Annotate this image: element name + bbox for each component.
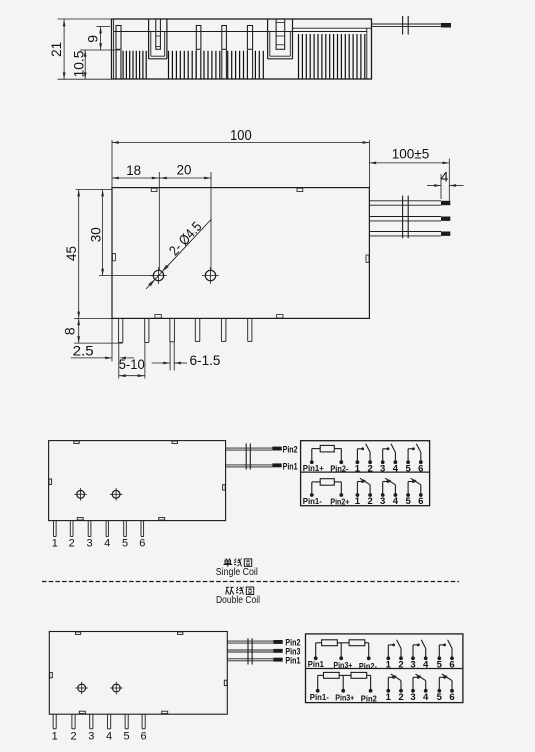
unit pin 4 bbox=[107, 714, 109, 729]
svg-text:Pin2-: Pin2- bbox=[359, 661, 377, 671]
svg-text:Pin1: Pin1 bbox=[308, 659, 324, 669]
svg-text:4: 4 bbox=[104, 538, 110, 550]
svg-text:6: 6 bbox=[139, 538, 145, 550]
double coil schematic box bbox=[306, 634, 463, 703]
unit mounting hole 1 bbox=[77, 490, 85, 498]
front view right edge notch bbox=[366, 255, 369, 262]
dimension 20 bbox=[159, 177, 211, 179]
svg-text:6: 6 bbox=[141, 731, 147, 743]
top view: relay body outline bbox=[112, 19, 372, 79]
dashed separator line bbox=[42, 581, 459, 583]
svg-text:5: 5 bbox=[124, 731, 130, 743]
unit bottom edge notch 1 bbox=[79, 711, 85, 713]
coil unit body outline bbox=[49, 632, 227, 715]
dimension 4 extension line bbox=[440, 174, 442, 199]
unit pin 1 bbox=[52, 714, 54, 729]
unit pin 4 bbox=[105, 521, 107, 537]
single coil wire tips bbox=[272, 447, 281, 451]
unit left edge notch bbox=[50, 672, 53, 677]
front view wire stripped tips bbox=[441, 201, 450, 205]
svg-text:5: 5 bbox=[122, 538, 128, 550]
double coil (reset) Pin1- / Pin3+ / Pin2 bbox=[316, 689, 320, 693]
closed contact pair 5-6 bbox=[406, 493, 410, 497]
svg-text:5: 5 bbox=[405, 463, 411, 474]
svg-text:4: 4 bbox=[393, 463, 399, 474]
chinese label dan-xian-quan (single coil) bbox=[225, 558, 228, 559]
svg-text:45: 45 bbox=[63, 246, 79, 261]
dimension 8 bbox=[78, 318, 80, 343]
unit pin 6 bbox=[140, 521, 142, 537]
front view pin 3 bbox=[169, 318, 171, 341]
unit right edge notch bbox=[223, 485, 226, 490]
front view mounting hole 1 bbox=[153, 270, 163, 280]
double closed contact pair 3-4 bbox=[411, 689, 415, 693]
svg-text:1: 1 bbox=[52, 538, 58, 550]
coil unit body outline bbox=[49, 441, 226, 521]
double coil (set) Pin1 / Pin3+ / Pin2- bbox=[314, 656, 318, 660]
svg-text:20: 20 bbox=[177, 162, 192, 178]
dimension 45 extension line bbox=[76, 189, 113, 191]
top view pin tab 6 bbox=[276, 19, 285, 49]
dimension 9 bbox=[100, 27, 102, 50]
unit pin 1 bbox=[53, 521, 55, 537]
unit bottom edge notch 2 bbox=[162, 711, 168, 713]
dimension 100 bbox=[112, 142, 369, 144]
svg-text:8: 8 bbox=[62, 327, 78, 335]
top view wire break marks bbox=[402, 16, 404, 35]
open contact pair 1-2 bbox=[356, 460, 360, 464]
front view: relay body outline bbox=[112, 188, 369, 319]
svg-text:Pin1-: Pin1- bbox=[303, 496, 322, 506]
dimension 4 bbox=[427, 185, 441, 187]
single coil unit wires bbox=[226, 447, 273, 449]
unit pin 5 bbox=[124, 714, 126, 729]
svg-text:6: 6 bbox=[418, 496, 423, 507]
top view pin tab 4 bbox=[222, 26, 227, 50]
unit bottom edge notch 2 bbox=[159, 518, 165, 520]
dimension 100 extension lines bbox=[111, 140, 113, 188]
dimension 45 bbox=[78, 190, 80, 319]
single coil wire break marks bbox=[245, 443, 247, 469]
top view U-slot 1 bbox=[148, 19, 150, 59]
top view pin tab 2 bbox=[156, 19, 161, 49]
open contact pair 5-6 bbox=[406, 460, 410, 464]
closed contact pair 1-2 bbox=[356, 493, 360, 497]
coil (energized +) between Pin1+ and Pin2- bbox=[310, 460, 314, 464]
svg-text:4: 4 bbox=[393, 496, 399, 507]
double open contact pair 5-6 bbox=[437, 656, 441, 660]
svg-text:6: 6 bbox=[418, 463, 423, 474]
dimension 30 bbox=[102, 190, 104, 276]
svg-text:3: 3 bbox=[87, 538, 93, 550]
double coil wire break marks bbox=[247, 638, 249, 664]
unit pin 5 bbox=[123, 521, 125, 537]
svg-text:Pin1+: Pin1+ bbox=[303, 463, 324, 473]
front view top edge notch 1 bbox=[151, 188, 157, 191]
svg-text:9: 9 bbox=[84, 35, 100, 43]
svg-text:Double Coil: Double Coil bbox=[216, 594, 260, 606]
svg-text:1: 1 bbox=[386, 692, 392, 703]
double coil unit wires bbox=[227, 640, 273, 642]
svg-text:2- Ø4.5: 2- Ø4.5 bbox=[166, 218, 205, 258]
open contact pair 3-4 bbox=[381, 460, 385, 464]
front view lead wires bbox=[369, 200, 441, 202]
double coil wire tips bbox=[273, 640, 282, 644]
svg-text:5: 5 bbox=[405, 496, 411, 507]
unit pin 2 bbox=[69, 521, 71, 537]
dimension 9 extension line bbox=[97, 26, 111, 28]
svg-text:2: 2 bbox=[367, 496, 372, 507]
extension lines below pins bbox=[111, 318, 113, 361]
front view wire break marks bbox=[402, 196, 404, 239]
dimension 30 extension line bbox=[99, 275, 153, 277]
svg-text:4: 4 bbox=[423, 659, 429, 670]
svg-text:4: 4 bbox=[423, 692, 429, 703]
front view pin 1 bbox=[118, 318, 120, 342]
dimension 18-20 extension lines bbox=[158, 172, 160, 270]
svg-text:Pin3+: Pin3+ bbox=[333, 660, 352, 670]
svg-text:4: 4 bbox=[441, 168, 449, 184]
unit right edge notch bbox=[224, 680, 227, 685]
unit pin 3 bbox=[87, 521, 89, 537]
top view comb teeth group B bbox=[168, 51, 170, 79]
dimension 18 bbox=[112, 177, 159, 179]
unit top edge notch 1 bbox=[75, 632, 80, 634]
svg-text:Pin2+: Pin2+ bbox=[330, 496, 349, 506]
dimension 100 plus-minus 5 extension line bbox=[448, 159, 450, 201]
front view mounting hole 2 bbox=[205, 270, 215, 280]
unit top edge notch 2 bbox=[172, 441, 177, 443]
front view pin 6 bbox=[247, 318, 249, 341]
svg-text:30: 30 bbox=[87, 227, 103, 242]
svg-text:3: 3 bbox=[88, 731, 94, 743]
dimension 2.5 leader bbox=[71, 357, 112, 359]
unit top edge notch 1 bbox=[74, 441, 79, 443]
svg-text:Pin2: Pin2 bbox=[283, 445, 298, 456]
dimension 8 extension lines bbox=[74, 317, 112, 319]
top view pin tab 1 bbox=[116, 26, 121, 50]
dimension 100 plus-minus 5 bbox=[369, 162, 449, 164]
svg-text:2: 2 bbox=[367, 463, 372, 474]
closed contact pair 3-4 bbox=[381, 493, 385, 497]
schematic divider line bbox=[301, 471, 430, 473]
top view right cap line bbox=[293, 27, 372, 29]
unit pin 2 bbox=[71, 714, 73, 729]
double schematic divider line bbox=[306, 668, 463, 670]
svg-text:6-1.5: 6-1.5 bbox=[190, 353, 221, 368]
svg-text:1: 1 bbox=[355, 496, 361, 507]
svg-text:4: 4 bbox=[106, 731, 112, 743]
top view pin tab 2 inner marks bbox=[156, 35, 161, 37]
svg-text:2.5: 2.5 bbox=[73, 343, 94, 358]
unit top edge notch 2 bbox=[178, 632, 183, 634]
unit mounting hole 2 bbox=[112, 684, 120, 692]
front view left edge notch bbox=[112, 253, 115, 260]
svg-text:Pin1: Pin1 bbox=[283, 462, 299, 473]
double open contact pair 1-2 bbox=[386, 656, 390, 660]
double closed contact pair 1-2 bbox=[386, 689, 390, 693]
svg-text:6: 6 bbox=[449, 659, 454, 670]
svg-text:21: 21 bbox=[48, 42, 64, 57]
unit mounting hole 2 bbox=[112, 490, 120, 498]
top view shoulder line bbox=[114, 31, 367, 33]
top view pin tab 3 bbox=[196, 26, 201, 50]
front view pin 5 bbox=[220, 318, 222, 341]
front view top edge notch 2 bbox=[297, 188, 303, 191]
coil (reset -) between Pin1- and Pin2+ bbox=[310, 493, 314, 497]
unit left edge notch bbox=[49, 479, 52, 484]
dimension 21 bbox=[63, 20, 65, 80]
top view inner right wall bbox=[366, 28, 368, 79]
svg-text:Pin1: Pin1 bbox=[285, 656, 301, 667]
svg-text:100: 100 bbox=[230, 128, 252, 144]
dimension 21 extension lines bbox=[58, 18, 112, 20]
svg-text:Single Coil: Single Coil bbox=[216, 566, 258, 578]
svg-text:2: 2 bbox=[69, 538, 75, 550]
front view pin 2 bbox=[144, 318, 146, 342]
svg-text:3: 3 bbox=[380, 463, 385, 474]
svg-text:Pin1-: Pin1- bbox=[310, 692, 329, 702]
top view white slots below pin tabs bbox=[117, 50, 121, 78]
svg-text:5-10: 5-10 bbox=[119, 357, 145, 372]
svg-text:3: 3 bbox=[410, 692, 415, 703]
svg-text:2: 2 bbox=[398, 692, 403, 703]
front view pin 4 bbox=[194, 318, 196, 341]
svg-text:5: 5 bbox=[437, 659, 443, 670]
dimension 10.5 bbox=[84, 50, 86, 79]
svg-text:Pin3+: Pin3+ bbox=[335, 693, 354, 703]
top view comb teeth group C bbox=[298, 34, 300, 79]
unit bottom edge notch 1 bbox=[77, 518, 83, 520]
svg-text:100±5: 100±5 bbox=[392, 146, 430, 162]
svg-text:1: 1 bbox=[386, 659, 392, 670]
dimension 5-10 bbox=[119, 375, 145, 377]
top view lead wire bbox=[372, 23, 442, 25]
svg-text:6: 6 bbox=[449, 692, 454, 703]
unit pin 3 bbox=[89, 714, 91, 729]
svg-text:Pin2-: Pin2- bbox=[330, 464, 348, 474]
svg-text:1: 1 bbox=[355, 463, 361, 474]
unit pin 6 bbox=[141, 714, 143, 729]
dimension 10.5 extension line bbox=[80, 49, 120, 51]
front view bottom edge notch 2 bbox=[277, 315, 283, 318]
hole leader line 2- dia 4.5 bbox=[146, 219, 212, 289]
front view bottom edge notch 1 bbox=[155, 315, 161, 318]
svg-text:Pin2: Pin2 bbox=[361, 694, 377, 704]
top view comb teeth group A bbox=[116, 51, 118, 79]
svg-text:2: 2 bbox=[398, 659, 403, 670]
top view wire stripped tip bbox=[441, 23, 451, 28]
svg-text:10.5: 10.5 bbox=[70, 50, 86, 77]
svg-text:5: 5 bbox=[437, 692, 443, 703]
dimension 6-1.5 bbox=[152, 362, 171, 364]
chinese label shuang-xian-quan (double coil) bbox=[226, 586, 229, 588]
svg-text:2: 2 bbox=[70, 731, 76, 743]
top view U-slot 2 bbox=[267, 19, 269, 59]
double open contact pair 3-4 bbox=[411, 656, 415, 660]
svg-text:3: 3 bbox=[380, 496, 385, 507]
double closed contact pair 5-6 bbox=[437, 689, 441, 693]
top view pin tab 5 bbox=[247, 26, 252, 50]
top view inner left wall bbox=[113, 19, 115, 79]
top view pin tab 6 inner marks bbox=[276, 22, 285, 24]
unit mounting hole 1 bbox=[78, 684, 86, 692]
svg-text:1: 1 bbox=[52, 731, 58, 743]
svg-text:18: 18 bbox=[126, 162, 141, 178]
single coil schematic box bbox=[301, 441, 430, 506]
svg-text:3: 3 bbox=[410, 659, 415, 670]
